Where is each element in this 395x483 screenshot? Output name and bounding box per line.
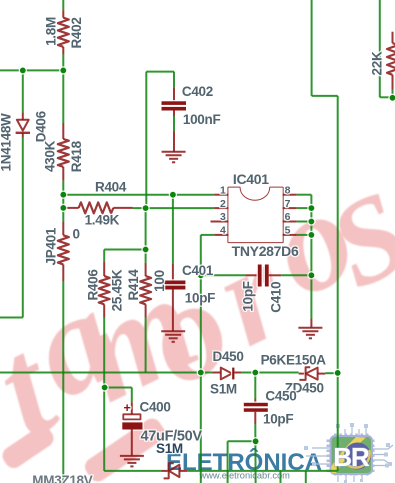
svg-text:8: 8: [285, 184, 291, 196]
svg-text:TNY287D6: TNY287D6: [232, 243, 299, 259]
svg-text:D406: D406: [34, 110, 49, 142]
svg-text:+: +: [124, 401, 131, 415]
svg-text:25.45K: 25.45K: [109, 269, 124, 311]
svg-text:6: 6: [285, 211, 291, 223]
svg-text:1.8M: 1.8M: [44, 17, 59, 46]
svg-text:100nF: 100nF: [183, 112, 221, 127]
svg-text:5: 5: [285, 225, 291, 237]
svg-text:0: 0: [73, 227, 80, 242]
svg-text:4: 4: [220, 225, 226, 237]
svg-text:C450: C450: [265, 388, 296, 403]
svg-text:1N4148W: 1N4148W: [0, 113, 13, 171]
svg-text:1: 1: [220, 184, 226, 196]
svg-text:R402: R402: [69, 17, 84, 48]
svg-text:D450: D450: [213, 349, 244, 364]
svg-text:1.49K: 1.49K: [85, 213, 120, 228]
svg-text:IC401: IC401: [233, 171, 269, 187]
svg-text:22K: 22K: [370, 51, 385, 75]
svg-text:3: 3: [220, 211, 226, 223]
svg-text:P6KE150A: P6KE150A: [261, 353, 327, 368]
svg-text:C401: C401: [182, 263, 214, 278]
svg-text:430K: 430K: [43, 140, 58, 172]
svg-text:S1M: S1M: [156, 441, 183, 456]
svg-text:BR: BR: [333, 442, 370, 472]
svg-text:2: 2: [220, 198, 226, 210]
svg-text:C410: C410: [269, 282, 284, 313]
svg-text:10pF: 10pF: [240, 281, 255, 311]
svg-text:R406: R406: [85, 269, 100, 301]
svg-text:JP401: JP401: [44, 227, 59, 265]
svg-text:R404: R404: [95, 179, 127, 194]
svg-text:10pF: 10pF: [263, 411, 293, 426]
svg-text:S1M: S1M: [210, 382, 237, 397]
svg-text:R418: R418: [69, 140, 84, 172]
svg-text:MM3Z18V: MM3Z18V: [32, 473, 92, 483]
svg-text:10pF: 10pF: [185, 290, 215, 305]
svg-text:C402: C402: [182, 84, 213, 99]
svg-text:100: 100: [152, 270, 167, 292]
svg-text:C400: C400: [140, 399, 171, 414]
svg-text:R414: R414: [126, 269, 141, 301]
svg-text:7: 7: [285, 198, 291, 210]
